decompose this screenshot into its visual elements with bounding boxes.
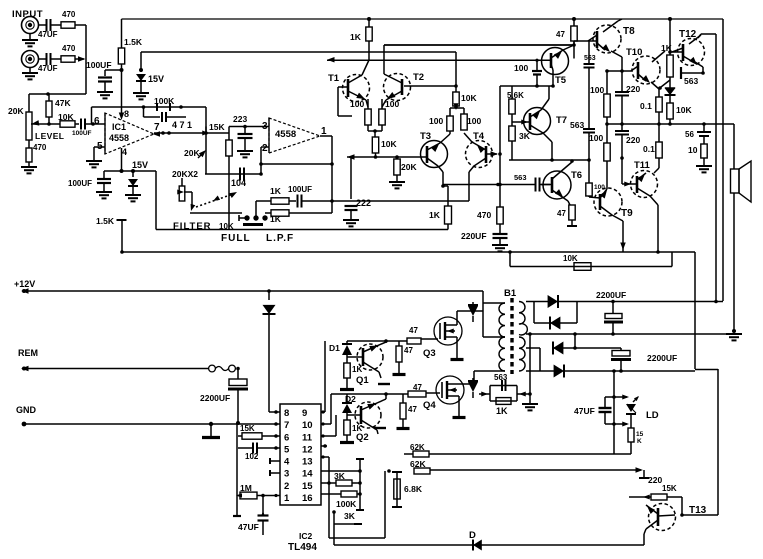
resistor 3K [509,126,515,141]
input node line first diff [347,154,355,160]
svg-text:100: 100 [594,184,605,191]
svg-text:20KX2: 20KX2 [172,169,198,179]
svg-text:T8: T8 [623,26,635,37]
svg-text:7: 7 [284,420,289,431]
capacitor 563 at T12 emitter [695,62,703,67]
op-amp IC1 4558 first half [105,113,154,154]
svg-text:16: 16 [302,493,313,504]
B1 secondary leads [526,301,548,303]
resistor 470 input 1 [61,22,75,28]
diode +12V to IC [268,291,270,300]
svg-text:47: 47 [557,209,566,218]
positive DC rail dots [714,300,718,304]
T8 base wire [574,40,597,42]
Q3 drain wire [456,311,458,325]
svg-text:15: 15 [302,481,313,492]
wire cap to op-amp pin 6 [85,123,105,125]
op-amp 4558 second half [269,118,320,153]
svg-text:14: 14 [302,469,313,480]
center tap ground wire [528,332,532,336]
T2 collector wire from line2 [384,44,574,46]
svg-text:20K: 20K [184,148,200,158]
transistor T1 [343,75,370,102]
wire R470-2 to input bus with arrow [75,58,84,60]
svg-text:470: 470 [62,44,76,53]
svg-text:47K: 47K [55,98,71,108]
RCA input jack J1 [22,17,39,34]
pin 5 wire to ground [94,146,105,148]
speaker return wire [733,193,735,331]
svg-text:T4: T4 [473,131,485,142]
capacitor 2200UF rem [229,379,247,386]
RCA input jack J2 [22,51,39,68]
svg-text:2: 2 [284,481,289,492]
svg-text:220UF: 220UF [461,231,487,241]
ground below 470 [28,162,30,167]
svg-text:0.1: 0.1 [640,101,652,111]
svg-text:47UF: 47UF [38,30,58,39]
ground for jack J2 [29,68,31,74]
B1 secondary winding lower [519,337,525,371]
capacitor 100UF V+ decoupling [105,69,122,71]
svg-text:15K: 15K [209,122,225,132]
svg-text:LEVEL: LEVEL [35,131,64,141]
svg-text:470: 470 [62,10,76,19]
svg-text:INPUT: INPUT [12,9,43,20]
T8 collector tick [618,19,622,21]
fuse symbol [209,365,216,372]
resistor 220 T13 base [643,470,645,478]
svg-text:8: 8 [284,408,289,419]
T13 emitter wire [644,529,646,534]
T6 collector up [570,159,574,163]
resistor 1K bias T1 T2 [366,27,372,41]
svg-text:220: 220 [626,135,640,145]
capacitor 100UF series to pin6 [80,119,82,130]
T7 base node [511,114,513,126]
svg-text:T3: T3 [420,131,431,142]
resistor 20K to ground at T3 base [396,157,398,159]
resistor 6.8K [387,469,391,473]
T5 emitter to line86 [552,70,554,86]
svg-text:11: 11 [302,432,313,443]
svg-text:9: 9 [302,408,307,419]
resistor 0.1 lower [658,124,660,142]
wire jack J2 to C2 [39,58,47,60]
svg-text:10: 10 [688,145,698,155]
ground for jack J1 [29,34,31,41]
svg-text:47: 47 [409,326,418,335]
B1 core [510,298,513,374]
T3 T4 emitter tail [438,166,443,172]
svg-text:100UF: 100UF [68,179,92,188]
svg-text:T9: T9 [621,208,633,219]
svg-text:15: 15 [636,431,644,438]
pin 14 wire [321,470,360,472]
svg-text:0.1: 0.1 [643,144,655,154]
rectifier diode second [533,302,535,324]
svg-text:8: 8 [124,109,129,119]
resistor 10K from T2 collector [453,92,459,106]
wire C2 to R-470-2 [51,58,62,60]
resistor 100 T3 collector [449,131,451,134]
bottom rail wire [334,544,644,546]
resistor 100 upper output [606,71,608,94]
svg-text:4 7 1: 4 7 1 [172,120,192,130]
Q4 drain wire [459,383,474,385]
svg-text:Q4: Q4 [423,400,436,411]
svg-text:1K: 1K [352,424,362,433]
svg-text:T12: T12 [679,29,697,40]
LED LD [626,404,636,412]
Q1 collector [385,341,387,343]
zobel resistor 10 [703,136,705,144]
svg-text:4558: 4558 [109,133,129,143]
transistor T8 [593,25,621,53]
svg-text:6: 6 [94,116,100,127]
T12 collector wire [701,33,716,35]
protection diode Q4 [472,378,474,382]
capacitor 100UF V- decoupling [103,171,105,178]
wire input bus to level pot [29,93,86,95]
svg-text:3K: 3K [334,471,346,481]
B1 primary winding lower [483,336,505,338]
resistor 62K lower [414,468,430,474]
T10 emitter to 0.1 [651,82,659,89]
pin 12 stub [321,445,327,447]
svg-text:IC2: IC2 [299,531,313,541]
negative rail amp [122,251,695,253]
resistor 47 T5 collector [573,19,575,26]
wire 15K to pin 3 of 4558 [229,126,269,128]
negative feed vertical [613,371,615,454]
wire C1 to R-470 [51,24,62,26]
svg-text:IC1: IC1 [112,122,126,132]
svg-text:T10: T10 [626,47,642,58]
capacitor 47UF input 2 [46,53,48,65]
svg-text:47: 47 [404,346,413,355]
transistor Q1 [357,344,383,370]
resistor 100 T2 emitter [381,99,383,109]
Q1 output line [347,340,407,342]
Q2 collector [385,394,387,399]
svg-text:47: 47 [408,405,417,414]
svg-text:1.5K: 1.5K [124,37,143,47]
svg-text:FULL: FULL [221,233,251,244]
resistor 470 with 220UF [499,185,501,208]
T12 collector vertical to +V [715,34,717,301]
transistor T3 [421,141,448,168]
resistor 10K series input [60,121,75,127]
junction vertical right of IC [359,459,361,510]
vertical negative to T13 [717,369,719,515]
wire wiper to 10K [44,123,60,125]
T8 emitter wire [611,51,622,57]
resistor 47K [48,94,50,101]
capacitor 104 [228,156,230,174]
47UF bracket wires [605,396,627,398]
line y186 to T6 base cap [443,184,535,186]
svg-text:4: 4 [284,457,290,468]
T1 base wire [337,87,339,116]
svg-text:100: 100 [514,63,528,73]
svg-text:10K: 10K [219,222,234,231]
transistor T10 [632,56,660,84]
svg-text:1: 1 [284,493,290,504]
FILTER potentiometer [179,186,185,201]
connection dots row [239,217,245,219]
svg-text:3K: 3K [344,511,356,521]
compensation cap 563 column [588,41,590,63]
T7 emitter down [543,133,552,142]
svg-text:2200UF: 2200UF [200,393,230,403]
positive rail wire top [122,18,724,20]
ground speaker return [726,333,742,335]
drive line to T5 base [327,57,335,63]
svg-text:100: 100 [467,116,481,126]
zener diode 15V negative [132,171,134,177]
T11 base wire [621,158,623,184]
svg-text:220: 220 [648,475,662,485]
svg-text:4558: 4558 [275,129,296,140]
output wire of second op-amp [320,135,332,137]
wire line2 to 47 node [384,44,574,46]
resistor 100 lower output [606,124,608,143]
svg-text:10: 10 [302,420,313,431]
pot terminal bar [243,223,263,226]
svg-text:10K: 10K [58,112,74,122]
resistor 62K upper [404,453,413,455]
zobel ground [703,158,705,165]
wire op-amp output to feedback [205,107,207,133]
svg-text:100: 100 [385,99,399,109]
T13 collector wire [682,514,718,516]
T12 base wire [670,51,683,53]
svg-text:100UF: 100UF [86,60,112,70]
svg-text:B1: B1 [504,288,517,299]
wire rail to 1K bias [368,19,370,27]
svg-text:20K: 20K [8,106,24,116]
svg-text:100K: 100K [336,499,357,509]
svg-text:D: D [469,530,476,541]
wire to pin 8 [269,411,280,413]
transistor Q2 [355,402,381,428]
resistor 15K LED [630,414,632,428]
Q1 emitter stub [378,383,390,385]
svg-text:104: 104 [231,178,246,188]
pin 16 wire 100K [321,493,341,495]
zener diode 15V positive [140,52,142,72]
resistor 470 input 2 [61,56,75,62]
svg-text:T11: T11 [634,160,651,171]
pin 9 wire to Q1 [321,411,325,413]
svg-text:2200UF: 2200UF [596,290,626,300]
REM wire [21,366,29,372]
rectifier diode top [548,295,558,308]
IC2 TL494 box [280,404,321,505]
+12V wire [21,288,29,294]
MOSFET Q3 [434,317,462,345]
svg-text:7: 7 [154,122,160,133]
svg-text:12: 12 [302,444,313,455]
svg-text:100: 100 [429,116,443,126]
svg-text:2: 2 [262,143,268,154]
feedback wire pin 2 [261,163,332,165]
svg-text:47: 47 [556,30,565,39]
svg-text:4: 4 [122,147,127,157]
svg-text:100UF: 100UF [72,130,92,137]
wire +12V to transformer [482,291,484,337]
svg-text:47UF: 47UF [238,522,259,532]
negative DC rail [612,369,616,373]
feedback column from output [499,86,501,154]
svg-text:10K: 10K [381,139,397,149]
svg-text:563: 563 [684,76,698,86]
resistor 47 gate pulldown Q3 [398,341,400,346]
driver node line to T10 base [607,70,631,72]
input bus vertical wire [85,25,87,94]
line 160 horizontal [509,159,589,161]
resistor 1M pin1 [236,493,242,497]
svg-text:1K: 1K [352,365,362,374]
svg-text:10K: 10K [461,93,477,103]
input line to T4 emitter [332,200,469,202]
pin 4 stub [270,460,280,462]
svg-text:47UF: 47UF [574,406,595,416]
T9 collector from 100 [606,161,608,189]
transistor T9 [594,188,622,216]
svg-text:6: 6 [284,432,289,443]
wire 1K to diode [669,77,671,88]
vertical up to 62K line [384,471,386,538]
svg-text:100UF: 100UF [288,185,312,194]
svg-text:T2: T2 [413,72,424,83]
resistor 10K lower [669,95,671,103]
svg-text:62K: 62K [410,443,425,452]
zero volt rail [530,333,734,335]
wire 0.1 to T11 [658,158,660,168]
transistor T2 [384,74,411,101]
GND wire [22,422,27,427]
svg-text:3: 3 [284,469,289,480]
resistor 10K tail T1 T2 [372,137,378,153]
capacitor 47UF pin1 [262,496,264,516]
svg-text:REM: REM [18,348,38,358]
Q2 collector line [331,393,408,395]
T4 base wire to feedback column [491,151,499,157]
svg-text:K: K [637,438,642,445]
resistor 47 gate pulldown Q4 [402,394,404,403]
svg-text:62K: 62K [410,459,426,469]
T9 base wire [588,160,590,183]
pin 7 wire gnd [274,422,278,426]
wire V- rail to lower bus [155,171,157,230]
wire V+ node to pin 8 [121,70,123,116]
resistor 1K T13 [629,496,651,498]
svg-text:13: 13 [302,457,313,468]
left column lower terminal [233,515,241,517]
speaker wire from rail [733,124,735,169]
svg-text:563: 563 [570,120,584,130]
transistor T6 [543,171,571,199]
svg-text:1K: 1K [496,406,508,416]
speaker [731,169,740,193]
negative rail corner [694,252,696,369]
svg-text:LD: LD [646,410,659,421]
svg-text:15K: 15K [662,484,677,493]
svg-text:100: 100 [350,99,364,109]
T7 collector to line86 [548,86,550,99]
svg-text:10K: 10K [676,105,692,115]
wire to 220 T13 [636,467,644,473]
pin 3 stub [270,472,280,474]
svg-text:56: 56 [685,130,694,139]
transistor T11 [631,171,658,198]
Q4 source wire [458,396,460,416]
svg-text:15V: 15V [132,160,148,170]
svg-text:563: 563 [584,55,596,62]
wire jack J1 to C1 [39,24,47,26]
svg-text:470: 470 [33,143,47,152]
svg-text:3: 3 [262,121,268,132]
pin 11 wire [321,435,336,437]
resistor 1K T12 bias [667,55,673,77]
svg-text:1K: 1K [270,186,282,196]
svg-text:223: 223 [233,114,247,124]
transistor T5 [542,48,569,75]
rectifier diode third [539,348,541,371]
svg-text:FILTER: FILTER [173,221,212,232]
wire fuse to cap [237,369,239,380]
pin 13 wire down [321,456,329,458]
B1 primary winding upper [483,302,505,304]
svg-text:Q2: Q2 [356,432,369,443]
svg-text:47UF: 47UF [38,64,58,73]
Q2 emitter stub [374,427,386,429]
resistor 100 T4 collector [464,133,472,142]
transistor T12 [678,39,705,66]
wire pot lower [28,140,30,148]
capacitor 222 to ground [350,157,352,199]
negative rail junction [695,369,718,371]
svg-text:100: 100 [589,133,603,143]
wire 1K to base node [368,41,370,60]
capacitor 471 in feedback [143,107,145,117]
diode in T12 column [665,87,676,95]
svg-text:D1: D1 [329,343,340,353]
svg-text:1K: 1K [350,32,362,42]
pin 10 wire to Q2 [321,423,331,425]
svg-text:1K: 1K [429,210,441,220]
bottom wire from pin13 [329,537,385,539]
vertical from 223/filter [228,174,230,230]
wire zener node rail2 [141,51,456,53]
svg-text:Q3: Q3 [423,348,436,359]
svg-text:100: 100 [590,85,604,95]
resistor 1K Q2 base [346,415,348,420]
feedback 10K line [509,252,511,267]
svg-text:T6: T6 [571,170,582,181]
Q3 source wire [456,337,458,358]
svg-text:6.8K: 6.8K [404,484,423,494]
wire 62K line junction [614,453,631,455]
output rail [607,123,734,125]
svg-text:15K: 15K [240,424,255,433]
svg-text:L.P.F: L.P.F [266,233,294,244]
tail resistor 1K [443,185,448,187]
capacitor 47UF input 1 [46,19,48,31]
wire 20K pot column [205,127,207,175]
